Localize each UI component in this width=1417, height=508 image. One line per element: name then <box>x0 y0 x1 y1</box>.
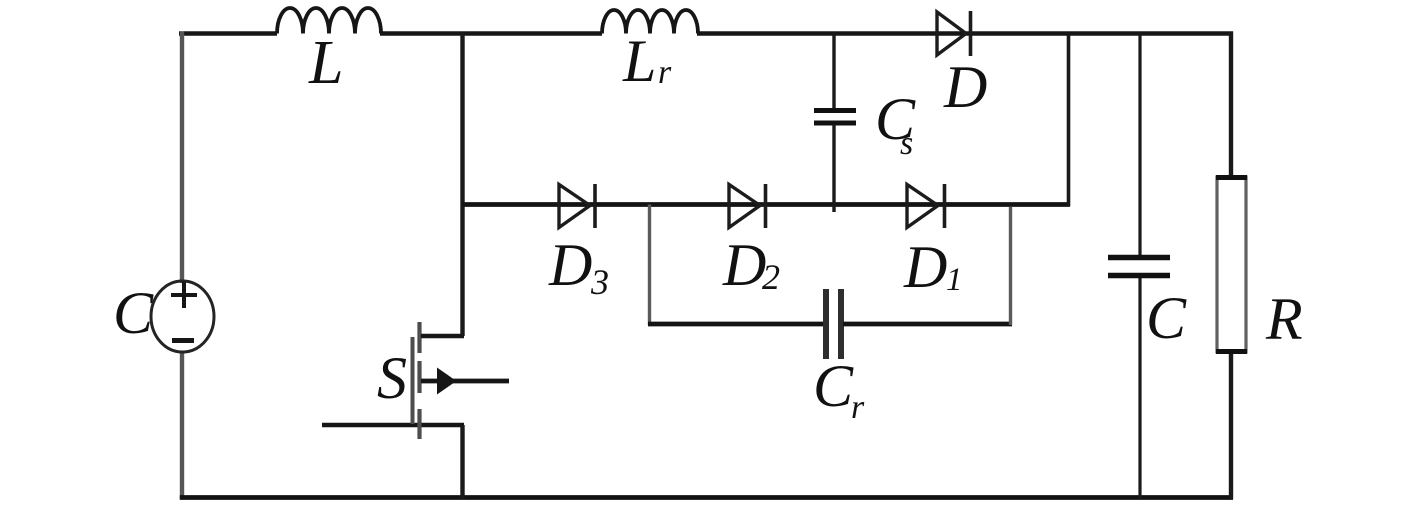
svg-text:D: D <box>903 234 947 300</box>
wire bottom rail <box>180 495 1233 500</box>
diode D <box>937 11 987 120</box>
svg-text:1: 1 <box>946 262 963 298</box>
svg-text:C: C <box>813 353 854 419</box>
svg-text:R: R <box>1265 286 1303 352</box>
inductor Lr <box>602 10 698 94</box>
svg-text:2: 2 <box>762 257 780 297</box>
svg-text:D: D <box>722 232 766 298</box>
wire drain branch vertical <box>460 34 464 337</box>
wire right rail <box>1229 32 1233 500</box>
wire right drop of middle rail <box>1067 34 1071 207</box>
svg-text:C: C <box>113 280 154 346</box>
capacitor Cr loop left wire <box>648 205 824 326</box>
svg-text:r: r <box>851 389 865 426</box>
capacitor Cr loop right wire <box>843 207 1012 325</box>
svg-text:D: D <box>943 54 987 120</box>
transistor S gate lead <box>322 423 464 428</box>
source V label C <box>113 280 154 346</box>
capacitor Cs <box>814 34 916 213</box>
diode D3 <box>548 184 609 302</box>
resistor R <box>1216 177 1303 352</box>
svg-text:r: r <box>658 54 672 91</box>
svg-text:S: S <box>377 345 407 411</box>
capacitor C branch wire <box>1138 34 1141 500</box>
capacitor Cr <box>813 289 865 426</box>
svg-text:L: L <box>308 29 343 97</box>
wire left rail <box>180 32 184 500</box>
wire source branch vertical <box>460 425 464 499</box>
source V ellipse <box>151 281 214 352</box>
svg-text:C: C <box>1146 285 1187 351</box>
capacitor C <box>1108 258 1187 352</box>
svg-text:L: L <box>622 28 656 94</box>
inductor L <box>277 8 381 97</box>
svg-text:s: s <box>900 125 913 162</box>
diode D1 <box>903 184 963 300</box>
diode D2 <box>722 184 780 298</box>
wire top rail <box>179 31 1233 36</box>
svg-text:D: D <box>548 232 592 298</box>
transistor S <box>377 322 509 439</box>
svg-text:3: 3 <box>590 262 609 302</box>
wire middle rail <box>463 202 1071 207</box>
